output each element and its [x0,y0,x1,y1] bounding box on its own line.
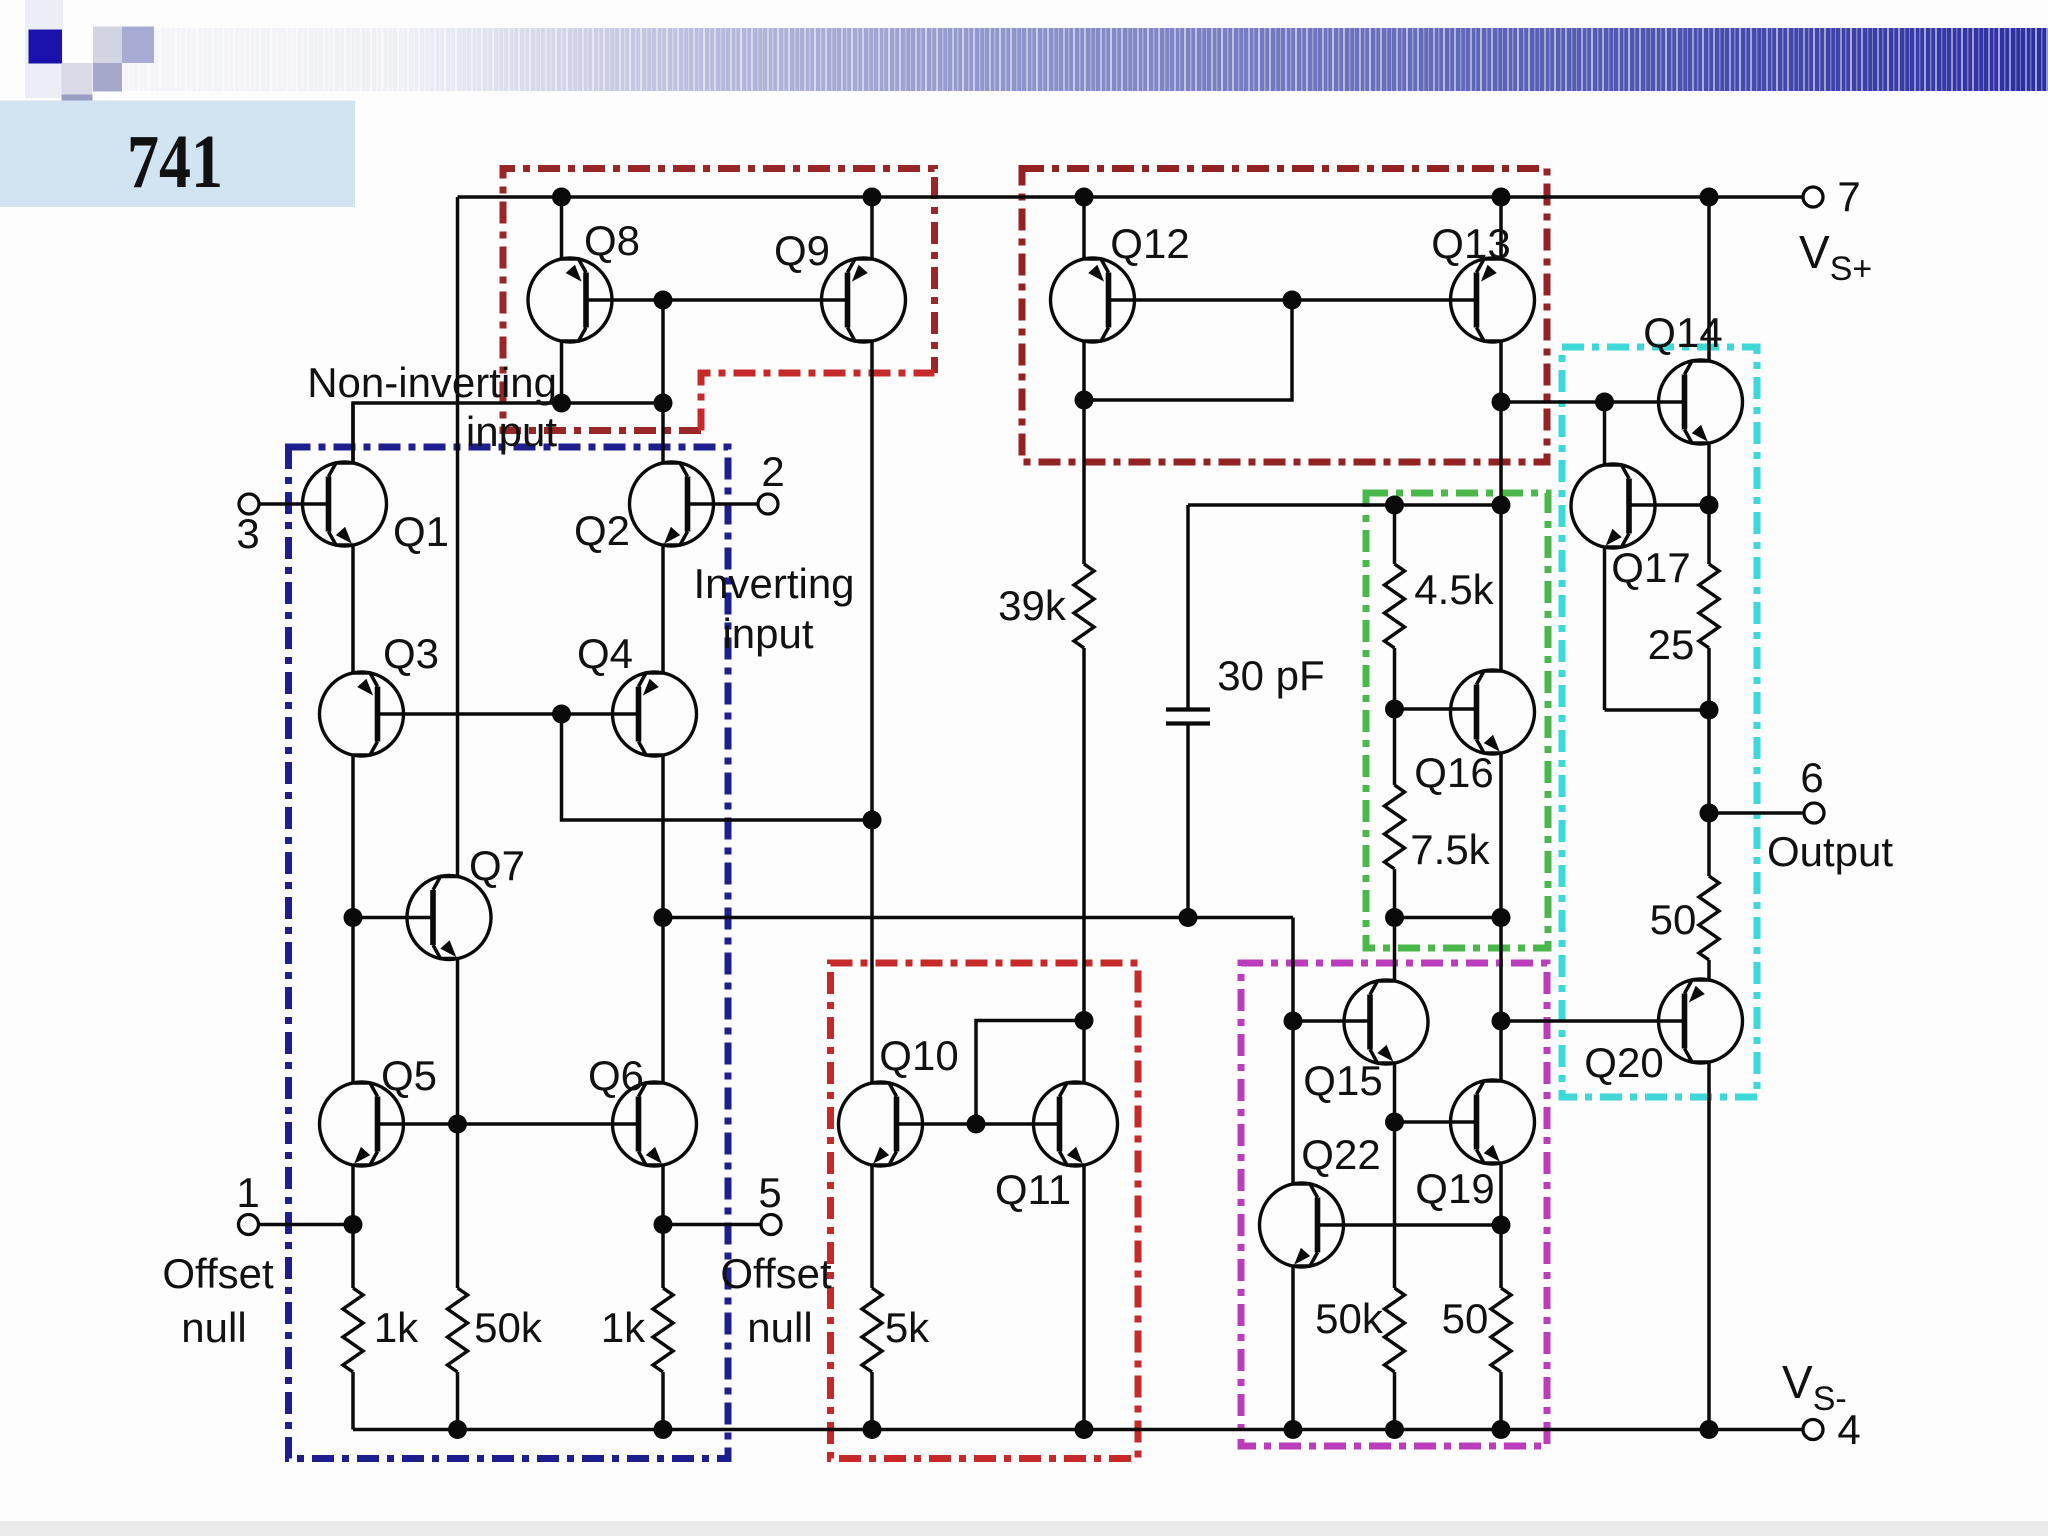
transistor Q2 [630,462,714,546]
wire: Q16 base link [1395,707,1478,711]
group box: current mirror Q12 Q13 (dark red dash) [1022,169,1547,463]
wire: V+ top rail [458,195,1803,199]
transistor Q3 [320,672,404,756]
svg-text:Inverting: Inverting [693,560,854,607]
transistor Q11 [1034,1082,1118,1166]
svg-text:30 pF: 30 pF [1217,652,1324,699]
svg-text:null: null [181,1304,246,1351]
transistor Q5 [320,1082,404,1166]
wire: column Q2 Q4 Q6 (x=663) [661,300,665,463]
decor square a1 [93,27,122,64]
transistor Q4 [613,672,697,756]
wire: Q11 diode jog [976,1021,1084,1125]
svg-text:1k: 1k [374,1304,419,1351]
wire: column 4.5k 7.5k Q15 50k (x=1394.5) [1393,505,1397,564]
transistor Q8 [528,258,612,342]
transistor Q17 [1571,464,1655,548]
wire: output node to pin6 [1709,811,1803,815]
svg-text:25: 25 [1648,621,1695,668]
wire: Q13 collector to Q14 base (y=402) [1501,400,1685,404]
resistor 50k (Q7 emitter) [448,1288,468,1372]
resistor 7.5k [1385,785,1405,869]
wire: first stage output (y=917.5) [663,916,1293,920]
resistor 4.5k [1385,564,1405,648]
svg-text:input: input [466,408,557,455]
svg-text:Offset: Offset [720,1250,832,1297]
transistor Q1 [303,462,387,546]
svg-text:3: 3 [236,510,259,557]
wire: pin1 to Q5 emitter [259,1223,353,1227]
svg-text:50k: 50k [1315,1295,1384,1342]
pin 5 terminal (offset null) [761,1215,781,1235]
slide header bar (striped blue gradient) [93,28,2048,91]
svg-text:Q15: Q15 [1303,1057,1382,1104]
transistor Q10 [839,1082,923,1166]
group box: voltage level shifter (green dash) [1366,493,1548,948]
svg-text:Q3: Q3 [383,630,439,677]
transistor Q22 [1260,1183,1344,1267]
pin 4 terminal (VS-) [1803,1420,1823,1440]
transistor Q16 [1451,670,1535,754]
resistor 5k (Q10 emitter) [862,1288,882,1372]
svg-text:Q12: Q12 [1110,220,1189,267]
pin 1 terminal (offset null) [239,1215,259,1235]
svg-text:7.5k: 7.5k [1410,826,1490,873]
svg-text:Q22: Q22 [1301,1131,1380,1178]
wire: Q8-Q9 base link [587,298,848,302]
group box: current mirror Q8 Q9 (dark red dash) [503,169,935,431]
decor light vertical band [25,0,63,98]
svg-text:Q5: Q5 [381,1052,437,1099]
wire: V- bottom rail [353,1428,1802,1432]
wire: column Q13 Q16 Q19 50 (x=1501) [1499,197,1503,259]
wire: column Q8 (x=561.5) [560,197,564,259]
transistor Q19 [1451,1080,1535,1164]
svg-text:Q7: Q7 [469,842,525,889]
transistor Q12 [1051,258,1135,342]
svg-text:Q10: Q10 [879,1032,958,1079]
svg-text:6: 6 [1800,754,1823,801]
svg-text:5: 5 [758,1169,781,1216]
transistor Q13 [1451,258,1535,342]
bottom page edge shading [0,1521,2048,1536]
svg-text:741: 741 [127,120,223,204]
wire: Q3-Q4 base link [379,712,639,716]
group box: class A gain stage (magenta dash) [1241,963,1547,1446]
wire: Q10-Q11 base link [897,1122,1060,1126]
transistor Q15 [1344,980,1428,1064]
svg-text:Q13: Q13 [1431,220,1510,267]
transistor Q7 [407,876,491,960]
resistor 50 (output) [1699,876,1719,960]
wire: Q7 base link [353,916,433,920]
title box [0,101,355,208]
svg-text:input: input [722,610,813,657]
wire: column Q1 Q3 Q5 (x=353) [351,403,355,463]
svg-text:2: 2 [761,448,784,495]
transistor Q6 [613,1082,697,1166]
transistor Q20 [1659,979,1743,1063]
svg-text:Q1: Q1 [393,508,449,555]
resistor 1k (Q6 emitter) [653,1288,673,1372]
svg-text:5k: 5k [885,1304,930,1351]
svg-text:7: 7 [1837,173,1860,220]
svg-text:Non-inverting: Non-inverting [307,359,557,406]
decor square a2 [122,27,154,64]
svg-text:50: 50 [1442,1295,1489,1342]
pin 6 terminal (output) [1804,803,1824,823]
wire: Q12-Q13 base link [1109,298,1477,302]
wire: Q19 base link [1395,1120,1478,1124]
svg-text:Q19: Q19 [1415,1165,1494,1212]
pin 3 terminal (non-inverting input) [239,494,259,514]
svg-text:50k: 50k [474,1304,543,1351]
wire: Q22 base link [1318,1223,1502,1227]
svg-text:Q16: Q16 [1414,749,1493,796]
pin 2 terminal (inverting input) [758,494,778,514]
group box: output stage (cyan dash) [1562,347,1757,1097]
decor square c [93,63,122,92]
transistor Q14 [1659,360,1743,444]
svg-text:Q4: Q4 [577,630,633,677]
resistor 25 [1699,564,1719,648]
svg-text:Q17: Q17 [1611,544,1690,591]
svg-text:null: null [747,1304,812,1351]
svg-text:Q6: Q6 [588,1052,644,1099]
decor strip [62,95,93,102]
svg-text:Offset: Offset [162,1250,274,1297]
svg-text:1k: 1k [601,1304,646,1351]
svg-text:Q9: Q9 [774,227,830,274]
resistor 50 (Q19 emitter) [1491,1288,1511,1372]
wire: column Q17 (x=1604.5) [1603,402,1607,465]
wire: Q17 emitter link [1605,708,1710,712]
junction dots [552,188,571,207]
resistor 39k [1074,564,1094,648]
wire: Q15 base link [1293,1019,1370,1023]
wire: Q5-Q6 base link [379,1122,640,1126]
wire: column Q12 39k Q11 (x=1084) [1082,197,1086,259]
svg-text:4.5k: 4.5k [1414,566,1494,613]
resistor 1k (Q5 emitter) [343,1288,363,1372]
group box: current mirror Q10 Q11 (red dash) [831,963,1139,1459]
svg-text:Q20: Q20 [1584,1039,1663,1086]
wire: column Q9 Q10 (x=872) [870,197,874,259]
resistor 50k (Q15 emitter) [1385,1288,1405,1372]
wire: pin3 to Q1 base [259,502,329,506]
wire: column Q14 25 50 Q20 (x=1709) [1707,197,1711,361]
svg-text:50: 50 [1650,896,1697,943]
transistor Q9 [822,258,906,342]
wire: column Q15-base Q22 (x=1293) [1291,918,1295,1185]
svg-text:Q14: Q14 [1643,309,1722,356]
svg-text:Q8: Q8 [584,217,640,264]
group box notch: current mirror Q8 Q9 (bright red dash) [701,373,935,431]
wire: Q2 base to pin2 [688,502,759,506]
decor dark blue square [29,30,63,64]
svg-text:Q11: Q11 [995,1166,1071,1213]
wire: column Q7 50k (x=457.5) [456,197,460,877]
svg-text:Output: Output [1767,828,1893,875]
decor square b [62,63,93,95]
wire: compensation node (y=505) [1188,503,1501,507]
svg-text:Q2: Q2 [574,507,630,554]
wire: Q17 base link [1630,503,1710,507]
wire: Q1 Q2 collectors to Q8 collector (y=403) [353,403,663,463]
wire: Q20 base link [1501,1019,1685,1023]
capacitor C1 30 pF [1186,505,1190,710]
svg-text:39k: 39k [998,582,1067,629]
group box: differential amplifier (blue dash) [289,447,729,1459]
pin 7 terminal (VS+) [1803,187,1823,207]
wire: Q12 collector to base jog [1084,300,1292,400]
wire: Q3/Q4 bases to Q9/Q10 column jog [562,714,873,820]
wire: Q6 emitter to pin5 [663,1223,760,1227]
svg-text:1: 1 [236,1169,259,1216]
wire: 7.5k bottom to Q16 emitter [1395,916,1502,920]
